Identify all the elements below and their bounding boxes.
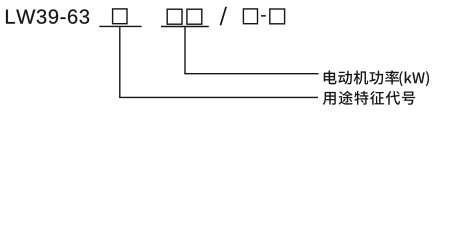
label 用途特征代号 <box>323 91 415 105</box>
label 电动机功率(kW) <box>324 70 429 86</box>
wire: vertical leader from boxes 2-3 <box>184 27 186 74</box>
designation box 5 <box>270 9 285 24</box>
hyphen between boxes 4 and 5 <box>261 15 266 17</box>
underline under box 1 <box>99 25 141 27</box>
designation box 4 <box>243 9 257 24</box>
wire: horizontal leader to label 用途特征代号 <box>119 96 318 98</box>
wire: horizontal leader to label 电动机功率(kW) <box>184 73 318 75</box>
designation box 2 <box>167 9 182 24</box>
designation box 1 (purpose feature code) <box>113 9 127 24</box>
slash separator <box>220 7 227 26</box>
wire: vertical leader from box 1 <box>119 26 121 97</box>
model text LW39-63 <box>6 9 89 23</box>
underline under boxes 2-3 <box>161 26 209 28</box>
designation box 3 <box>187 9 202 24</box>
